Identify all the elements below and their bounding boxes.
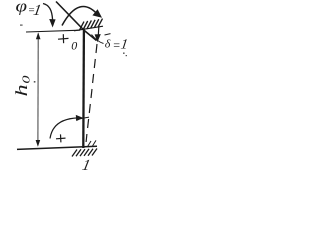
delta arrow (down) at top support — [97, 27, 100, 38]
base rotation arc — [50, 118, 78, 139]
leader curl of delta label — [92, 35, 104, 44]
column 0-1 — [82, 30, 85, 148]
top support baseline — [74, 26, 103, 31]
node 0 cross mark — [58, 34, 69, 43]
ground line — [17, 146, 97, 149]
svg-text:δ: δ — [105, 37, 111, 51]
tick through column at base arc — [76, 117, 89, 119]
base hatching below ground — [72, 149, 97, 157]
node 1 cross mark — [56, 134, 66, 142]
scan specks — [20, 25, 127, 83]
svg-text:φ: φ — [16, 0, 28, 15]
arrow from phi label to top node — [43, 4, 53, 21]
dimension line h0 — [37, 34, 39, 146]
base hatching marks above ground right of column — [88, 140, 97, 146]
top support hatching — [80, 19, 103, 31]
svg-text:0: 0 — [71, 39, 77, 53]
top beam line — [26, 30, 80, 32]
rotation arc (phi) over node 0 — [62, 7, 99, 26]
deflected column axis (dashed) — [86, 44, 97, 142]
rotated tangent line through node 0 — [56, 2, 97, 41]
